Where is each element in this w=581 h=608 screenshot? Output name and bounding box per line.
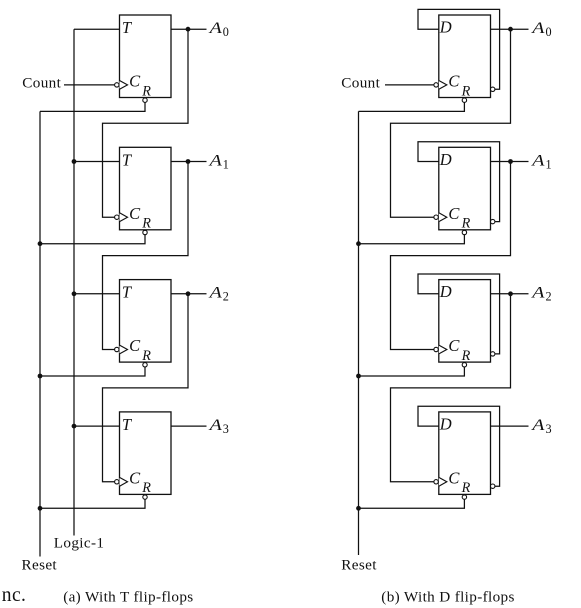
svg-text:R: R xyxy=(461,83,471,99)
svg-text:(b) With D flip-flops: (b) With D flip-flops xyxy=(381,589,514,606)
svg-text:D: D xyxy=(439,150,452,169)
output label A0 (b) xyxy=(531,19,552,39)
wire FF5 Q-bar feedback loop to D input xyxy=(418,9,500,89)
svg-text:Reset: Reset xyxy=(341,556,377,573)
svg-text:Count: Count xyxy=(341,74,380,91)
FF6 clock negation bubble xyxy=(434,215,438,219)
svg-text:0: 0 xyxy=(223,25,229,39)
FF6 clock dynamic-indicator wedge xyxy=(439,213,447,222)
Logic-1 tap junction dot FF2 xyxy=(72,159,77,164)
wire FF6 Q-bar feedback loop to D input xyxy=(418,142,500,222)
svg-text:3: 3 xyxy=(223,422,229,436)
wire FF7 Q-bar feedback loop to D input xyxy=(418,274,500,354)
FF2 reset bubble xyxy=(143,230,147,234)
wire FF2 Q output to A1 label xyxy=(171,161,207,163)
svg-text:A: A xyxy=(208,284,222,302)
output label A1 (b) xyxy=(531,151,552,171)
wire A0 to FF2 clock xyxy=(103,29,189,217)
output label A0 xyxy=(208,19,229,39)
svg-text:R: R xyxy=(461,216,471,232)
svg-text:1: 1 xyxy=(223,157,229,171)
FF2 pin label C xyxy=(129,204,141,223)
FF5 pin label R (subscript) xyxy=(461,83,471,99)
svg-text:(a) With T flip-flops: (a) With T flip-flops xyxy=(63,589,193,606)
FF5 reset bubble xyxy=(462,98,466,102)
FF2 clock dynamic-indicator wedge xyxy=(120,213,128,222)
FF1 pin label R (subscript) xyxy=(141,83,151,99)
svg-text:A: A xyxy=(531,284,545,302)
Reset tap junction dot FF6 xyxy=(356,241,361,246)
wire A1 to FF3 clock xyxy=(103,162,189,350)
svg-text:T: T xyxy=(122,18,133,37)
wire FF4 T input xyxy=(74,425,120,427)
svg-text:A: A xyxy=(208,19,222,37)
input label Count (b) xyxy=(341,74,380,91)
svg-text:nc.: nc. xyxy=(2,585,26,606)
output label A1 xyxy=(208,151,229,171)
svg-text:Logic-1: Logic-1 xyxy=(54,535,105,552)
FF3 clock negation bubble xyxy=(115,347,119,351)
FF8 pin label R (subscript) xyxy=(461,480,471,496)
FF4 pin label T xyxy=(122,415,133,434)
wire FF5 Q output to A0 label xyxy=(491,28,529,30)
FF7 clock dynamic-indicator wedge xyxy=(439,345,447,354)
FF1 pin label C xyxy=(129,72,141,91)
FF2 pin label R (subscript) xyxy=(141,216,151,232)
FF4 clock dynamic-indicator wedge xyxy=(120,477,128,486)
svg-text:Reset: Reset xyxy=(22,556,58,573)
net Logic-1 vertical line xyxy=(73,29,75,535)
label Logic-1 xyxy=(54,535,105,552)
wire FF8 reset bubble to Reset line xyxy=(359,499,465,508)
FF4 clock negation bubble xyxy=(115,480,119,484)
svg-text:T: T xyxy=(122,150,133,169)
svg-text:Count: Count xyxy=(22,74,61,91)
FF6 pin label D xyxy=(439,150,452,169)
FF2 pin label T xyxy=(122,150,133,169)
wire FF3 T input xyxy=(74,293,120,295)
Reset tap junction dot FF7 xyxy=(356,374,361,379)
svg-text:0: 0 xyxy=(546,25,552,39)
label Reset (b) xyxy=(341,556,377,573)
svg-text:2: 2 xyxy=(223,290,229,304)
wire FF3 Q output to A2 label xyxy=(171,293,207,295)
FF2 clock negation bubble xyxy=(115,215,119,219)
svg-text:R: R xyxy=(141,83,151,99)
FF8 clock negation bubble xyxy=(434,480,438,484)
caption (a) With T flip-flops xyxy=(63,589,193,606)
wire A0 to FF6 clock xyxy=(391,29,511,217)
FF5 clock negation bubble xyxy=(434,83,438,87)
FF3 clock dynamic-indicator wedge xyxy=(120,345,128,354)
svg-text:R: R xyxy=(141,480,151,496)
wire FF2 reset bubble to Reset line xyxy=(40,235,145,244)
FF7 pin label C xyxy=(448,336,460,355)
FF7 pin label R (subscript) xyxy=(461,348,471,364)
D flip-flop FF5 body xyxy=(439,15,491,98)
node A1 junction dot (b) xyxy=(508,159,513,164)
svg-text:C: C xyxy=(448,336,460,355)
node A0 junction dot xyxy=(186,27,191,32)
svg-text:2: 2 xyxy=(546,290,552,304)
caption (b) With D flip-flops xyxy=(381,589,514,606)
wire Count to FF1 clock xyxy=(64,84,115,86)
wire FF5 reset bubble to Reset line xyxy=(359,102,465,111)
svg-text:R: R xyxy=(141,216,151,232)
node A2 junction dot (b) xyxy=(508,291,513,296)
Logic-1 tap junction dot FF4 xyxy=(72,424,77,429)
net Reset vertical line (b) xyxy=(358,111,360,555)
svg-text:C: C xyxy=(129,469,141,488)
output label A2 xyxy=(208,284,229,304)
FF3 pin label R (subscript) xyxy=(141,348,151,364)
svg-text:D: D xyxy=(439,415,452,434)
node A1 junction dot xyxy=(186,159,191,164)
FF6 complement output bubble xyxy=(491,219,495,223)
output label A3 xyxy=(208,416,229,436)
FF8 reset bubble xyxy=(462,495,466,499)
T flip-flop FF3 body xyxy=(120,280,172,363)
wire FF6 reset bubble to Reset line xyxy=(359,235,465,244)
svg-text:A: A xyxy=(531,19,545,37)
T flip-flop FF2 body xyxy=(120,147,172,230)
svg-text:A: A xyxy=(531,416,545,434)
svg-text:A: A xyxy=(531,151,545,169)
svg-text:1: 1 xyxy=(546,157,552,171)
svg-text:D: D xyxy=(439,282,452,301)
FF5 clock dynamic-indicator wedge xyxy=(439,81,447,90)
svg-text:T: T xyxy=(122,415,133,434)
FF7 clock negation bubble xyxy=(434,347,438,351)
svg-text:R: R xyxy=(141,348,151,364)
FF1 clock negation bubble xyxy=(115,83,119,87)
FF7 complement output bubble xyxy=(491,352,495,356)
D flip-flop FF8 body xyxy=(439,412,491,495)
input label Count (a) xyxy=(22,74,61,91)
svg-text:3: 3 xyxy=(546,422,552,436)
wire A2 to FF8 clock xyxy=(391,294,511,482)
T flip-flop FF1 body xyxy=(120,15,172,98)
node A2 junction dot xyxy=(186,291,191,296)
net Reset vertical line (a) xyxy=(39,111,41,556)
output label A2 (b) xyxy=(531,284,552,304)
caption fragment nc. xyxy=(2,585,26,606)
wire FF7 Q output to A2 label xyxy=(491,293,529,295)
Reset tap junction dot FF2 xyxy=(38,241,43,246)
FF3 pin label T xyxy=(122,283,133,302)
FF3 pin label C xyxy=(129,336,141,355)
svg-text:R: R xyxy=(461,480,471,496)
wire FF1 Q output to A0 label xyxy=(171,28,207,30)
svg-text:A: A xyxy=(208,416,222,434)
output label A3 (b) xyxy=(531,416,552,436)
FF6 reset bubble xyxy=(462,230,466,234)
wire FF6 Q output to A1 label xyxy=(491,161,529,163)
Reset tap junction dot FF4 xyxy=(38,506,43,511)
svg-text:C: C xyxy=(448,469,460,488)
wire FF1 reset bubble to Reset line xyxy=(40,102,145,111)
svg-text:R: R xyxy=(461,348,471,364)
svg-text:C: C xyxy=(129,204,141,223)
Logic-1 tap junction dot FF3 xyxy=(72,291,77,296)
wire FF2 T input xyxy=(74,161,120,163)
FF1 reset bubble xyxy=(143,98,147,102)
FF7 reset bubble xyxy=(462,363,466,367)
FF6 pin label C xyxy=(448,204,460,223)
wire FF4 Q output to A3 label xyxy=(171,425,207,427)
svg-text:D: D xyxy=(439,18,452,37)
wire FF1 T input xyxy=(74,28,120,30)
Reset tap junction dot FF3 xyxy=(38,374,43,379)
svg-text:A: A xyxy=(208,151,222,169)
FF4 reset bubble xyxy=(143,495,147,499)
wire Count to FF5 clock xyxy=(385,84,434,86)
wire FF8 Q-bar feedback loop to D input xyxy=(418,406,500,486)
FF8 clock dynamic-indicator wedge xyxy=(439,477,447,486)
D flip-flop FF7 body xyxy=(439,280,491,363)
FF6 pin label R (subscript) xyxy=(461,216,471,232)
label Reset (a) xyxy=(22,556,58,573)
FF4 pin label R (subscript) xyxy=(141,480,151,496)
FF8 pin label C xyxy=(448,469,460,488)
FF1 pin label T xyxy=(122,18,133,37)
Reset tap junction dot FF8 xyxy=(356,506,361,511)
FF1 clock dynamic-indicator wedge xyxy=(120,81,128,90)
D flip-flop FF6 body xyxy=(439,147,491,230)
svg-text:C: C xyxy=(448,204,460,223)
svg-text:C: C xyxy=(448,72,460,91)
FF4 pin label C xyxy=(129,469,141,488)
node A0 junction dot (b) xyxy=(508,27,513,32)
FF5 pin label C xyxy=(448,72,460,91)
svg-text:T: T xyxy=(122,283,133,302)
wire FF7 reset bubble to Reset line xyxy=(359,367,465,376)
svg-text:C: C xyxy=(129,72,141,91)
wire FF3 reset bubble to Reset line xyxy=(40,367,145,376)
FF8 pin label D xyxy=(439,415,452,434)
FF5 complement output bubble xyxy=(491,87,495,91)
FF7 pin label D xyxy=(439,282,452,301)
wire FF8 Q output to A3 label xyxy=(491,425,529,427)
FF5 pin label D xyxy=(439,18,452,37)
svg-text:C: C xyxy=(129,336,141,355)
wire FF4 reset bubble to Reset line xyxy=(40,499,145,508)
wire A2 to FF4 clock xyxy=(103,294,189,482)
FF8 complement output bubble xyxy=(491,484,495,488)
FF3 reset bubble xyxy=(143,363,147,367)
T flip-flop FF4 body xyxy=(120,412,172,495)
wire A1 to FF7 clock xyxy=(391,162,511,350)
